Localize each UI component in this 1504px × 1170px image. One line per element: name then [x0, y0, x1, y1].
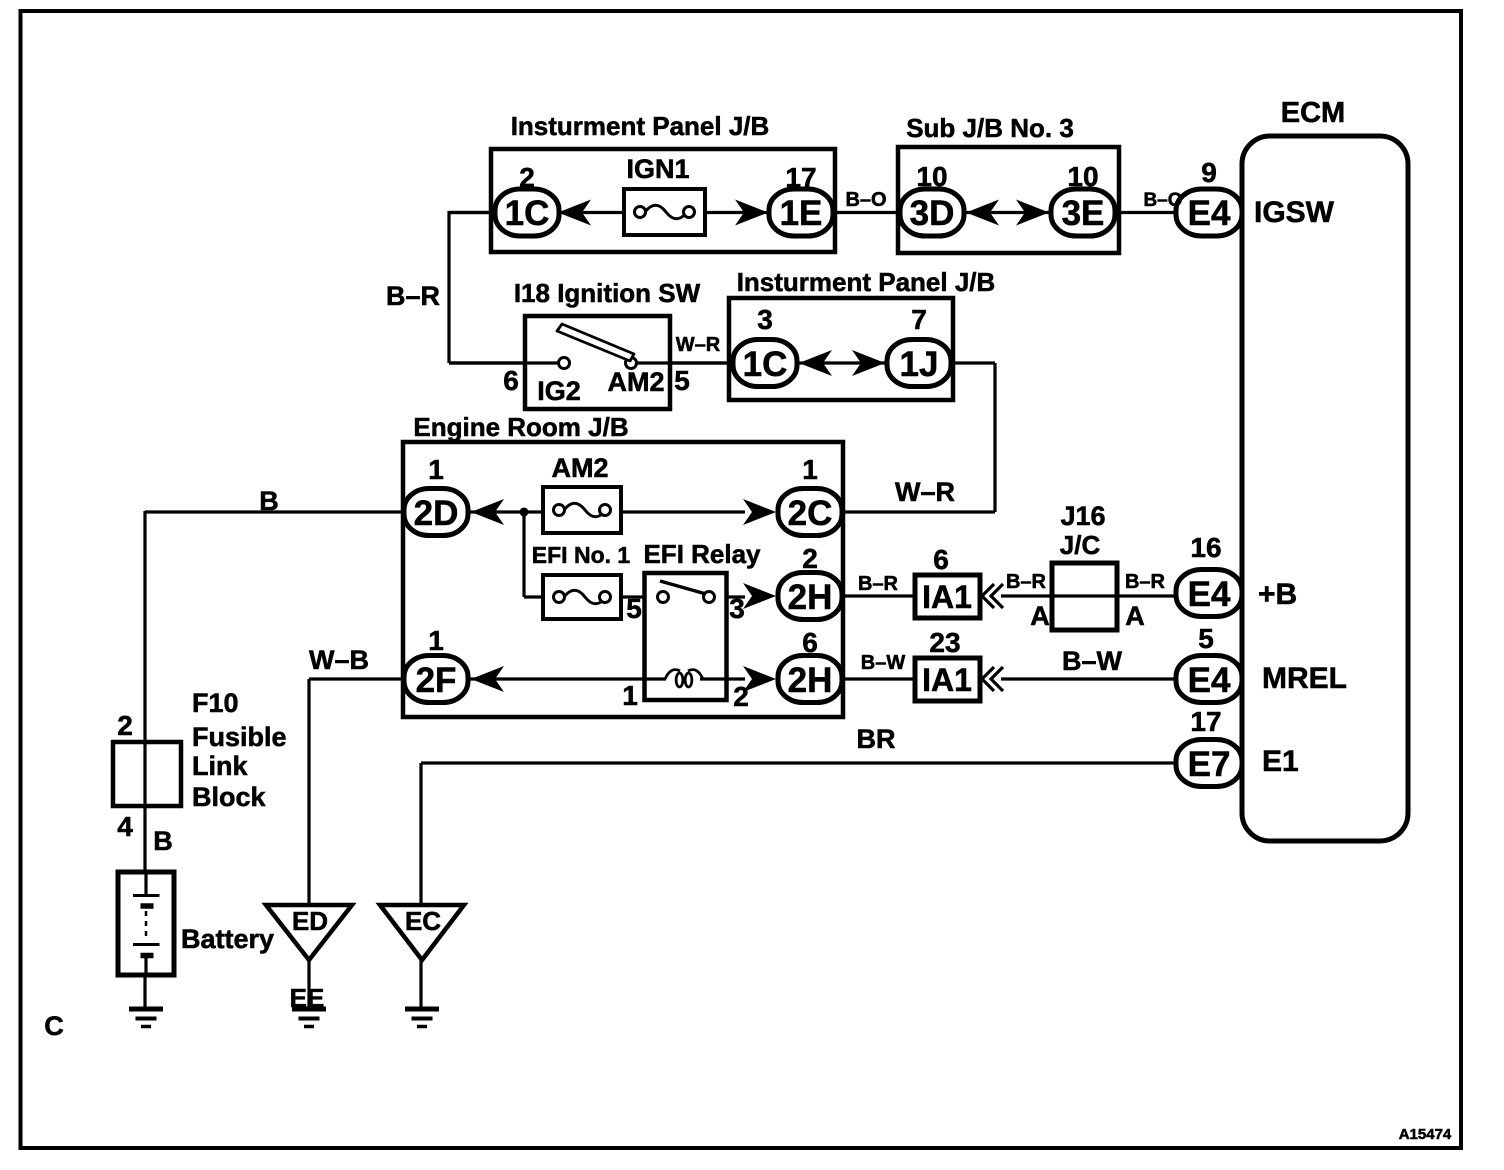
svg-text:5: 5 [1198, 623, 1214, 654]
svg-text:A15474: A15474 [1399, 1126, 1452, 1143]
svg-text:E7: E7 [1188, 745, 1231, 784]
svg-text:B: B [259, 486, 279, 516]
svg-text:+B: +B [1258, 578, 1297, 611]
svg-text:B: B [153, 826, 173, 856]
svg-text:ECM: ECM [1281, 97, 1345, 129]
svg-text:1: 1 [428, 625, 444, 656]
svg-text:2H: 2H [788, 661, 833, 700]
svg-text:W–R: W–R [676, 334, 721, 356]
svg-text:A: A [1125, 601, 1145, 631]
svg-text:B–R: B–R [1006, 571, 1047, 593]
svg-text:3: 3 [757, 304, 773, 335]
svg-text:W–R: W–R [895, 477, 955, 507]
svg-text:Block: Block [192, 782, 267, 812]
svg-text:23: 23 [929, 627, 960, 658]
svg-text:EFI No. 1: EFI No. 1 [532, 542, 631, 568]
svg-text:17: 17 [785, 162, 816, 193]
svg-text:W–B: W–B [309, 645, 369, 675]
svg-text:IG2: IG2 [537, 376, 581, 406]
svg-text:E4: E4 [1188, 575, 1231, 614]
svg-text:AM2: AM2 [607, 367, 664, 397]
svg-text:3D: 3D [910, 194, 955, 233]
svg-text:IA1: IA1 [922, 662, 972, 698]
svg-text:Insturment Panel J/B: Insturment Panel J/B [737, 267, 996, 297]
svg-text:6: 6 [503, 365, 519, 396]
svg-text:B–R: B–R [858, 573, 899, 595]
svg-text:B–W: B–W [861, 652, 906, 674]
svg-text:B–R: B–R [386, 281, 440, 311]
svg-text:AM2: AM2 [551, 453, 608, 483]
svg-text:E1: E1 [1262, 745, 1299, 778]
svg-text:2: 2 [802, 543, 818, 574]
svg-text:2F: 2F [416, 661, 457, 700]
svg-text:F10: F10 [192, 688, 239, 718]
svg-text:2: 2 [733, 681, 749, 712]
svg-text:5: 5 [626, 593, 642, 624]
svg-text:E4: E4 [1188, 661, 1231, 700]
svg-text:A: A [1030, 601, 1050, 631]
svg-text:I18 Ignition SW: I18 Ignition SW [514, 278, 701, 308]
svg-text:EC: EC [405, 906, 441, 936]
svg-text:2H: 2H [788, 578, 833, 617]
svg-text:1: 1 [802, 454, 818, 485]
svg-text:2C: 2C [788, 494, 833, 533]
svg-text:J16: J16 [1060, 501, 1105, 531]
svg-text:1C: 1C [505, 194, 550, 233]
svg-text:17: 17 [1190, 706, 1221, 737]
svg-text:1C: 1C [743, 345, 788, 384]
svg-text:J/C: J/C [1060, 530, 1101, 560]
svg-text:BR: BR [857, 724, 896, 754]
svg-text:EE: EE [290, 983, 325, 1013]
svg-text:Engine Room J/B: Engine Room J/B [413, 412, 628, 442]
svg-text:Fusible: Fusible [192, 722, 287, 752]
svg-text:B–R: B–R [1125, 571, 1166, 593]
svg-text:5: 5 [674, 365, 690, 396]
svg-text:2: 2 [519, 162, 535, 193]
svg-text:7: 7 [911, 304, 927, 335]
svg-text:10: 10 [916, 161, 947, 192]
svg-text:2: 2 [117, 710, 133, 741]
svg-text:B–O: B–O [845, 189, 886, 211]
svg-text:IGN1: IGN1 [626, 154, 689, 184]
svg-text:1: 1 [622, 680, 638, 711]
svg-text:4: 4 [117, 811, 133, 842]
svg-text:1: 1 [428, 454, 444, 485]
svg-text:3E: 3E [1062, 194, 1105, 233]
svg-text:B–O: B–O [1143, 190, 1182, 211]
svg-text:C: C [44, 1011, 64, 1041]
svg-text:IGSW: IGSW [1254, 196, 1335, 229]
svg-text:6: 6 [802, 627, 818, 658]
svg-text:10: 10 [1067, 161, 1098, 192]
svg-text:Sub J/B No. 3: Sub J/B No. 3 [906, 113, 1074, 143]
svg-text:ED: ED [292, 906, 328, 936]
svg-text:IA1: IA1 [922, 579, 972, 615]
svg-text:1E: 1E [780, 194, 823, 233]
svg-text:1J: 1J [900, 345, 939, 384]
svg-text:16: 16 [1190, 532, 1221, 563]
svg-text:Battery: Battery [181, 924, 274, 954]
svg-text:Insturment Panel J/B: Insturment Panel J/B [511, 111, 770, 141]
svg-text:2D: 2D [414, 494, 459, 533]
svg-text:6: 6 [933, 544, 949, 575]
svg-text:MREL: MREL [1262, 662, 1347, 695]
svg-text:EFI Relay: EFI Relay [643, 539, 761, 569]
svg-text:3: 3 [729, 593, 745, 624]
svg-text:E4: E4 [1188, 194, 1231, 233]
svg-text:Link: Link [192, 751, 248, 781]
svg-text:9: 9 [1201, 157, 1217, 188]
svg-text:B–W: B–W [1062, 646, 1123, 676]
